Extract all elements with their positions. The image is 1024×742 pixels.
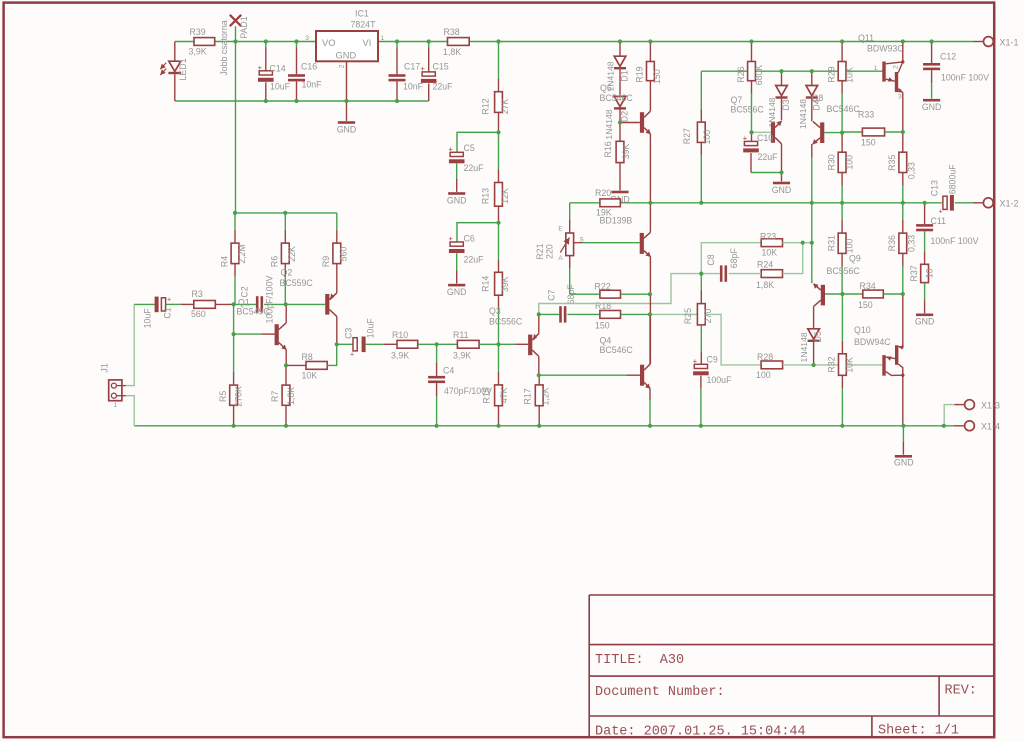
svg-text:GND: GND [922, 102, 942, 112]
svg-text:R12: R12 [480, 98, 490, 114]
svg-text:10K: 10K [302, 370, 318, 380]
svg-text:R25: R25 [683, 308, 693, 324]
svg-text:Q9: Q9 [849, 253, 861, 263]
svg-text:7824T: 7824T [351, 20, 377, 30]
svg-text:Date: 2007.01.25. 15:04:44: Date: 2007.01.25. 15:04:44 [595, 724, 806, 739]
svg-text:BC546C: BC546C [600, 93, 634, 103]
svg-text:C16: C16 [301, 62, 317, 72]
svg-text:GND: GND [894, 457, 914, 467]
svg-text:68pF: 68pF [729, 248, 739, 269]
svg-text:10K: 10K [845, 357, 855, 373]
svg-text:R9: R9 [321, 256, 331, 267]
svg-text:+: + [421, 64, 426, 73]
svg-text:VI: VI [363, 38, 372, 48]
svg-text:R22: R22 [595, 281, 611, 291]
svg-text:R35: R35 [887, 155, 897, 171]
svg-text:GND: GND [772, 185, 792, 195]
svg-text:BC559C: BC559C [280, 278, 314, 288]
svg-text:560: 560 [191, 309, 206, 319]
svg-text:+: + [167, 296, 171, 303]
svg-text:X1-4: X1-4 [981, 422, 1000, 432]
svg-text:Q11: Q11 [858, 33, 874, 43]
svg-text:47K: 47K [499, 387, 509, 403]
svg-text:C10: C10 [757, 133, 773, 143]
svg-text:GND: GND [447, 195, 467, 205]
svg-text:1: 1 [874, 65, 878, 72]
svg-text:680K: 680K [754, 65, 764, 86]
svg-text:Q8: Q8 [812, 93, 824, 103]
svg-text:D5: D5 [813, 331, 823, 342]
svg-text:150: 150 [595, 320, 610, 330]
svg-text:C1: C1 [162, 307, 172, 318]
svg-text:3,9K: 3,9K [391, 350, 409, 360]
svg-text:1: 1 [113, 402, 117, 409]
svg-text:1,8K: 1,8K [756, 280, 774, 290]
svg-text:R3: R3 [192, 289, 203, 299]
svg-text:PAD1: PAD1 [239, 16, 249, 38]
svg-text:150: 150 [858, 300, 873, 310]
svg-text:X1-1: X1-1 [1000, 37, 1019, 47]
svg-text:R34: R34 [860, 281, 876, 291]
svg-text:10uF: 10uF [270, 81, 291, 91]
svg-text:R5: R5 [218, 391, 228, 402]
svg-text:10uF: 10uF [365, 318, 375, 339]
svg-text:1,8K: 1,8K [443, 47, 461, 57]
svg-text:+: + [350, 352, 354, 359]
svg-text:BDW94C: BDW94C [854, 337, 891, 347]
svg-text:IC1: IC1 [355, 9, 369, 19]
svg-text:R29: R29 [826, 66, 836, 82]
svg-text:REV:: REV: [945, 683, 977, 698]
svg-text:C2: C2 [239, 286, 249, 297]
svg-text:100: 100 [756, 370, 771, 380]
svg-text:C9: C9 [707, 354, 718, 364]
svg-text:R31: R31 [826, 235, 836, 251]
svg-text:3,9K: 3,9K [189, 47, 207, 57]
svg-text:1: 1 [381, 35, 385, 42]
svg-text:22uF: 22uF [433, 81, 454, 91]
svg-text:C15: C15 [433, 61, 449, 71]
svg-text:220: 220 [545, 244, 555, 259]
svg-text:R13: R13 [480, 188, 490, 204]
svg-text:D3: D3 [781, 99, 791, 110]
svg-text:R6: R6 [270, 256, 280, 267]
svg-text:TITLE: A30: TITLE: A30 [595, 653, 684, 668]
svg-text:100nF 100V: 100nF 100V [941, 72, 989, 82]
svg-text:Document Number:: Document Number: [595, 685, 725, 700]
svg-text:X1-3: X1-3 [981, 400, 1000, 410]
svg-text:R26: R26 [736, 66, 746, 82]
svg-text:D2: D2 [620, 111, 630, 122]
svg-text:150: 150 [861, 138, 876, 148]
svg-text:39K: 39K [621, 143, 631, 159]
svg-text:Jobb csatorna: Jobb csatorna [219, 20, 229, 75]
svg-text:A: A [558, 255, 563, 262]
svg-text:C12: C12 [940, 51, 956, 61]
svg-text:R32: R32 [827, 356, 837, 372]
svg-text:Sheet: 1/1: Sheet: 1/1 [878, 723, 959, 738]
svg-text:BC556C: BC556C [827, 266, 861, 276]
svg-text:1,8K: 1,8K [286, 387, 296, 405]
svg-text:+: + [449, 144, 454, 153]
svg-text:BD139B: BD139B [600, 215, 633, 225]
svg-text:C11: C11 [931, 216, 947, 226]
svg-text:GND: GND [337, 124, 357, 134]
svg-text:GND: GND [915, 317, 935, 327]
svg-text:2: 2 [339, 64, 346, 68]
svg-text:BC556C: BC556C [731, 104, 765, 114]
svg-text:C8: C8 [706, 254, 716, 265]
svg-text:Q10: Q10 [854, 325, 871, 335]
svg-text:R27: R27 [682, 128, 692, 144]
svg-text:BDW93C: BDW93C [867, 43, 904, 53]
svg-text:X1-2: X1-2 [1000, 199, 1019, 209]
svg-text:+: + [258, 63, 263, 72]
svg-text:C17: C17 [404, 62, 420, 72]
svg-text:R11: R11 [453, 330, 469, 340]
svg-text:6800uF: 6800uF [947, 164, 957, 194]
svg-text:R17: R17 [523, 388, 533, 404]
svg-text:150: 150 [652, 69, 662, 84]
svg-text:27K: 27K [500, 99, 510, 115]
svg-text:R4: R4 [219, 256, 229, 267]
svg-text:C13: C13 [929, 180, 939, 196]
svg-text:C14: C14 [270, 63, 286, 73]
svg-text:D1: D1 [620, 70, 630, 81]
svg-text:R20: R20 [595, 188, 611, 198]
svg-text:R33: R33 [858, 109, 874, 119]
svg-text:470pF/100V: 470pF/100V [444, 386, 492, 396]
svg-text:R23: R23 [760, 232, 776, 242]
svg-text:+: + [449, 234, 454, 243]
svg-text:100: 100 [702, 130, 712, 145]
svg-text:C5: C5 [464, 143, 475, 153]
svg-text:Q4: Q4 [600, 335, 612, 345]
svg-text:10nF: 10nF [403, 81, 424, 91]
svg-text:R36: R36 [887, 235, 897, 251]
svg-text:3: 3 [305, 35, 309, 42]
svg-text:1N4148: 1N4148 [798, 99, 808, 129]
svg-text:22K: 22K [287, 246, 297, 262]
svg-text:1N4148: 1N4148 [799, 332, 809, 362]
svg-text:22uF: 22uF [464, 163, 485, 173]
svg-text:E: E [558, 226, 563, 233]
svg-text:+: + [939, 209, 943, 216]
svg-text:100nF 100V: 100nF 100V [931, 236, 979, 246]
svg-text:R16: R16 [603, 141, 613, 157]
svg-text:10: 10 [924, 268, 934, 278]
svg-text:10K: 10K [762, 247, 778, 257]
svg-text:100uF: 100uF [707, 375, 733, 385]
svg-text:J1: J1 [100, 363, 110, 372]
svg-text:GND: GND [447, 287, 467, 297]
svg-text:10nF: 10nF [302, 80, 323, 90]
svg-text:R24: R24 [757, 259, 773, 269]
svg-text:R37: R37 [909, 265, 919, 281]
svg-text:R10: R10 [392, 330, 408, 340]
svg-text:22uF: 22uF [758, 152, 779, 162]
svg-text:R8: R8 [302, 352, 313, 362]
svg-text:0,33: 0,33 [906, 235, 916, 252]
svg-text:+: + [743, 133, 748, 142]
svg-text:560: 560 [338, 247, 348, 262]
svg-text:R19: R19 [635, 66, 645, 82]
svg-text:R28: R28 [757, 352, 773, 362]
svg-text:LED1: LED1 [178, 58, 188, 80]
svg-text:Q7: Q7 [731, 95, 743, 105]
svg-text:10uF: 10uF [142, 308, 152, 329]
svg-text:R39: R39 [190, 27, 206, 37]
svg-text:C6: C6 [464, 233, 475, 243]
svg-text:270K: 270K [234, 386, 244, 407]
svg-text:R30: R30 [826, 154, 836, 170]
svg-text:100: 100 [844, 155, 854, 170]
svg-text:BC549C: BC549C [237, 307, 271, 317]
svg-text:2,2M: 2,2M [237, 244, 247, 264]
svg-text:10K: 10K [844, 67, 854, 83]
svg-text:39K: 39K [500, 276, 510, 292]
svg-text:12K: 12K [500, 188, 510, 204]
svg-text:R7: R7 [270, 391, 280, 402]
svg-text:Q3: Q3 [489, 306, 501, 316]
svg-text:3: 3 [898, 94, 902, 101]
svg-text:R38: R38 [444, 27, 460, 37]
svg-text:C4: C4 [443, 365, 454, 375]
svg-text:C3: C3 [343, 328, 353, 339]
svg-text:270: 270 [703, 309, 713, 324]
svg-text:R18: R18 [595, 301, 611, 311]
svg-text:22uF: 22uF [464, 254, 485, 264]
svg-text:R14: R14 [480, 276, 490, 292]
svg-text:BC546C: BC546C [600, 345, 634, 355]
svg-text:0,33: 0,33 [906, 162, 916, 179]
svg-text:100: 100 [844, 239, 854, 254]
svg-text:VO: VO [322, 38, 335, 48]
svg-text:BC556C: BC556C [489, 317, 523, 327]
svg-text:1N4148: 1N4148 [604, 109, 614, 139]
svg-text:+: + [693, 356, 698, 365]
svg-text:Q2: Q2 [281, 268, 293, 278]
svg-text:Q6: Q6 [600, 83, 612, 93]
svg-text:GND: GND [336, 51, 357, 61]
svg-text:1,2K: 1,2K [541, 387, 551, 405]
svg-text:C7: C7 [546, 290, 556, 301]
svg-text:3,9K: 3,9K [453, 350, 471, 360]
svg-text:2: 2 [893, 65, 900, 69]
svg-text:BC546C: BC546C [827, 104, 861, 114]
